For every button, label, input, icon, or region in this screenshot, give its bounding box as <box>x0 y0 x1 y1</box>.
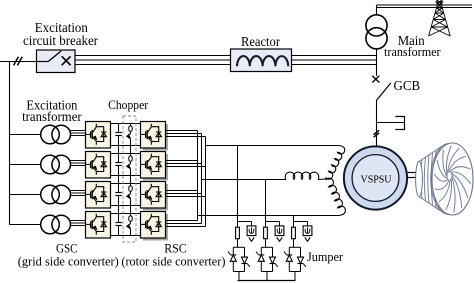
excitation circuit breaker box <box>37 50 76 73</box>
svg-text:Chopper: Chopper <box>108 97 149 112</box>
excitation transformer T5 <box>10 215 71 234</box>
GSC converter module row 4 <box>86 212 111 239</box>
wire: DC link rails row 4 <box>111 214 141 236</box>
wire: transformer LV to GCB <box>376 49 378 76</box>
wire: DC link rails row 3 <box>111 184 141 206</box>
transmission tower <box>429 0 451 36</box>
wire: excitation feeder bus (vertical) <box>9 62 11 225</box>
break mark on machine lead <box>374 130 380 137</box>
wire: GCB to machine <box>376 100 378 146</box>
label: RSC (rotor side converter) <box>121 242 225 269</box>
VSPSU machine (motor-generator) <box>344 146 407 209</box>
wire: rotor line phase B (middle) <box>202 179 287 181</box>
reactor L1 <box>231 49 292 72</box>
label: Main transformer <box>384 33 441 59</box>
svg-text:transformer: transformer <box>22 109 82 124</box>
jumper branch phase B <box>256 180 284 281</box>
GSC converter module row 3 <box>86 182 111 209</box>
RSC converter module row 1 <box>141 122 169 151</box>
GCB open-position x mark <box>372 76 379 83</box>
rotor winding coil (middle) <box>285 172 319 179</box>
wire: 3-phase leads transformer T3 to GSC <box>71 161 86 166</box>
wire: 3-phase leads transformer T2 to GSC <box>71 131 86 136</box>
svg-text:transformer: transformer <box>384 44 441 59</box>
wire: RSC phase outputs to vertical buses <box>166 131 206 227</box>
jumper branch phase A <box>228 146 256 281</box>
dc-link capacitor column <box>115 124 121 236</box>
excitation transformer T2 <box>10 125 71 144</box>
svg-text:(grid side converter): (grid side converter) <box>18 254 119 268</box>
pump-turbine runner <box>416 143 473 215</box>
wire: DC link rails row 1 <box>111 124 141 146</box>
wire: 3-phase leads transformer T4 to GSC <box>71 191 86 196</box>
jumper branch phase C <box>284 216 312 281</box>
main transformer T1 <box>366 15 387 49</box>
label: Excitation circuit breaker <box>23 21 99 48</box>
wire: DC link rails row 2 <box>111 154 141 176</box>
svg-text:Jumper: Jumper <box>307 250 344 264</box>
svg-text:(rotor side converter): (rotor side converter) <box>121 254 225 268</box>
wire: 3-phase bus reactor to main transformer drop <box>292 56 377 65</box>
wire: transformer HV lead to grid line <box>376 5 378 15</box>
wire: rotor line phase C (bottom) <box>198 215 341 217</box>
RSC converter module row 2 <box>141 152 169 181</box>
break mark on incoming line <box>14 57 19 66</box>
shaft to turbine <box>407 173 419 178</box>
GSC converter module row 1 <box>86 122 111 149</box>
GCB disconnect blade <box>377 83 391 100</box>
wire: rotor phase bus A <box>197 131 199 221</box>
wire: jumper common bus <box>238 280 296 282</box>
svg-text:VSPSU: VSPSU <box>361 175 392 186</box>
label: GSC (grid side converter) <box>18 242 119 269</box>
rotor winding coil (bottom) <box>326 178 346 215</box>
stub and bracket (CT/measurement tap) <box>377 117 405 130</box>
svg-text:Reactor: Reactor <box>241 34 280 49</box>
chopper dashed enclosure <box>123 116 136 242</box>
wire: rotor line phase A (top) <box>206 145 341 147</box>
GSC converter module row 2 <box>86 152 111 179</box>
rotor winding coil (top) <box>326 146 345 179</box>
chopper branch column (resistor + switch per row) <box>127 124 132 236</box>
wire: incoming excitation supply line <box>0 61 37 63</box>
svg-text:circuit breaker: circuit breaker <box>23 33 99 48</box>
RSC converter module row 4 <box>141 212 169 241</box>
wire: rotor phase bus B <box>201 134 203 224</box>
wire: 3-phase bus breaker to reactor <box>75 56 231 65</box>
wire: rotor phase bus C <box>205 137 207 227</box>
excitation transformer T3 <box>10 155 71 174</box>
excitation transformer T4 <box>10 185 71 204</box>
svg-text:GCB: GCB <box>394 79 421 94</box>
wire: 3-phase leads transformer T5 to GSC <box>71 221 86 226</box>
RSC converter module row 3 <box>141 182 169 211</box>
wire: coil to star point <box>318 178 326 181</box>
wire: double transmission line to grid <box>377 5 473 8</box>
label: Excitation transformer <box>22 97 82 124</box>
